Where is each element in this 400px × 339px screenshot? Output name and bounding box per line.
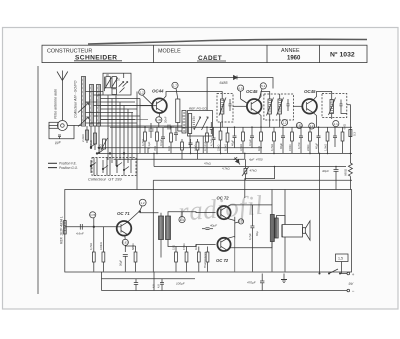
capacitor C 22nF (164, 125, 174, 130)
svg-text:A.T.C.A: A.T.C.A (203, 142, 207, 151)
tuned circuit 2 in REF box (202, 117, 209, 130)
wire: Q5 collector to output transformer (227, 205, 272, 215)
wire: B+ feed to output transformer (271, 190, 273, 205)
svg-text:REF. PO-GO: REF. PO-GO (189, 106, 207, 110)
coil column 1 (band switch wafer) (74, 125, 81, 127)
resistor row g (219, 122, 222, 153)
wire: verticals x=145,148 drop to audio box (144, 148, 146, 154)
wire: pot to audio (245, 167, 275, 199)
svg-text:OC44: OC44 (152, 89, 164, 94)
test point 1,7 (172, 82, 178, 99)
transistor Q4 OC71 (117, 221, 132, 236)
battery terminal + (340, 272, 355, 277)
bus B3 (98, 152, 352, 154)
capacitor row t (333, 127, 337, 147)
switch on + rail (319, 269, 342, 275)
svg-text:Collecteur AM - GO/PO: Collecteur AM - GO/PO (74, 80, 78, 118)
bus B1 (110, 126, 352, 128)
transistor Q6 OC72 bottom (217, 238, 230, 251)
battery terminal - (347, 288, 355, 293)
capacitor row c (189, 139, 193, 153)
resistor row u (341, 127, 344, 153)
svg-text:0,1µF: 0,1µF (159, 139, 163, 146)
svg-text:40µF: 40µF (322, 169, 329, 173)
resistor R 4,7k bias (92, 227, 95, 272)
wire: rail link vertical (101, 272, 103, 291)
wire: speaker return (284, 237, 286, 272)
capacitor row k (250, 127, 254, 148)
svg-text:2,2kΩ: 2,2kΩ (81, 134, 85, 142)
labels: Position FE / Position GO (48, 162, 78, 170)
resistor R osc feedback (176, 99, 180, 123)
test point 1,2 mf2 (282, 120, 288, 126)
diode D detection (234, 157, 240, 164)
svg-text:0,9: 0,9 (238, 86, 243, 90)
resistor row d (196, 139, 199, 159)
svg-text:1,5: 1,5 (338, 257, 343, 261)
node: base junction (93, 226, 95, 228)
capacitor C 470uF (260, 274, 264, 291)
svg-text:680Ω: 680Ω (131, 244, 135, 251)
svg-text:0,63: 0,63 (123, 240, 129, 244)
labels: ladder values (141, 139, 328, 151)
wire: MF3 to right edge (341, 111, 347, 114)
svg-text:1,7: 1,7 (173, 84, 178, 88)
wire: transformer tap down (271, 242, 273, 272)
test point 0,9 (238, 85, 248, 104)
wire: long vertical x=154 (153, 153, 155, 166)
resistor R 680 emitter (125, 246, 137, 272)
wire: MF3 lead to bus (331, 114, 333, 120)
svg-text:15Ω: 15Ω (171, 245, 175, 250)
svg-text:μμF: μμF (54, 141, 62, 145)
svg-text:4,7nF: 4,7nF (297, 142, 301, 149)
svg-text:3,9kΩ: 3,9kΩ (239, 144, 243, 151)
svg-text:40µ: 40µ (255, 231, 259, 236)
svg-text:70Ω: 70Ω (153, 146, 157, 151)
svg-text:4,5: 4,5 (152, 284, 156, 288)
bus B6 (153, 179, 352, 181)
bus B5 (154, 166, 346, 168)
svg-text:1,2: 1,2 (140, 90, 145, 94)
transformer T driver winding 1 (159, 213, 164, 258)
capacitor MF1 (229, 99, 232, 111)
arrow: tuning slug col1 a (78, 103, 89, 113)
resistor row b (170, 127, 173, 153)
wires: vertical drops to tuning area (87, 92, 140, 190)
test point 1,45 (156, 113, 162, 127)
resistor 4,7k (144, 127, 147, 148)
potentiometer volume 47k (242, 159, 249, 180)
svg-text:10kΩ: 10kΩ (193, 145, 197, 151)
svg-text:470µF: 470µF (247, 281, 256, 285)
svg-text:4,7µF: 4,7µF (248, 233, 252, 240)
svg-text:100kΩ: 100kΩ (99, 242, 103, 250)
svg-text:OC45: OC45 (246, 89, 258, 94)
resistor row m (273, 127, 276, 153)
svg-text:OC45: OC45 (304, 89, 316, 94)
resistor R osc 2,2k (86, 130, 89, 140)
capacitor row n (281, 127, 285, 153)
svg-text:1,45: 1,45 (156, 118, 162, 122)
svg-text:1,2: 1,2 (283, 121, 287, 125)
coil column 3 (band switch wafer) (97, 85, 101, 127)
capacitor C 40uF mid (202, 228, 213, 230)
svg-text:470Ω: 470Ω (182, 244, 186, 251)
transistor Q5 OC72 top (217, 206, 230, 219)
arrow: tuning slug col1 b (78, 117, 89, 127)
svg-text:40µF: 40µF (279, 142, 283, 149)
capacitor row i (233, 127, 237, 148)
resistor R 100k bias (102, 227, 105, 272)
wire: AF input (65, 226, 117, 228)
resistor row q (309, 127, 312, 153)
bus B2 (98, 147, 262, 149)
bus B4 (114, 158, 245, 160)
svg-text:MODELE: MODELE (158, 48, 181, 54)
wire: Q2 emitter drop (258, 113, 261, 128)
svg-text:N° 1032: N° 1032 (330, 50, 355, 58)
svg-text:150Ω: 150Ω (288, 145, 292, 152)
junction dots (144, 126, 351, 167)
transistor Q3 OC45 (302, 99, 317, 114)
test point 1,2 (139, 89, 152, 106)
svg-text:1,2: 1,2 (140, 201, 145, 205)
svg-text:47kΩ: 47kΩ (250, 169, 258, 173)
header table (42, 45, 367, 62)
capacitor row a (161, 127, 165, 148)
oscillator coil box (103, 73, 131, 95)
svg-text:40µF: 40µF (210, 224, 217, 228)
resistor R osc 3,2k (94, 133, 97, 144)
dashed box: MF1 (217, 94, 233, 123)
diode D agc (234, 76, 238, 80)
speaker (281, 221, 310, 240)
transformer T output secondary (275, 218, 278, 238)
bias resistor row: R 470 (185, 247, 188, 272)
test point 1,2b (309, 123, 315, 129)
svg-text:4,7kΩ: 4,7kΩ (141, 139, 145, 146)
svg-text:100µF: 100µF (176, 282, 185, 286)
antenna coupling box + capacitor C1 (49, 122, 74, 139)
wire: rail3 minus (102, 290, 348, 292)
svg-text:4,8: 4,8 (157, 284, 161, 288)
capacitor row r (317, 127, 321, 153)
resistor row s (326, 127, 329, 153)
wire: vertical x=319.5 long (319, 153, 321, 273)
test point 5,1 (259, 83, 266, 100)
wire: link 154 to rail3 (153, 272, 155, 291)
AGC loop wire (207, 78, 273, 111)
wire: osc to REF box (178, 123, 182, 132)
fuse F 1,5A (336, 254, 349, 274)
svg-text:ANNEE: ANNEE (281, 48, 300, 54)
wire: Q3 collector to MF3 (313, 92, 332, 101)
resistor row j (242, 127, 245, 153)
wire: MF2 to Q3 base (293, 105, 302, 107)
capacitor C 50uF emitter (123, 255, 128, 272)
svg-text:4,6nF: 4,6nF (76, 232, 84, 236)
audio section box (65, 190, 352, 273)
svg-text:1960: 1960 (287, 55, 301, 61)
dashed box: MF3 (322, 94, 347, 118)
svg-text:40µF: 40µF (231, 139, 235, 146)
test point 1,1 (333, 121, 339, 127)
wire: driver sec bottom to Q6 base (168, 240, 216, 247)
wire: Q1 collector to MF1 (163, 92, 222, 100)
svg-text:1kΩ: 1kΩ (167, 146, 171, 151)
capacitor C bottom 157 (160, 279, 164, 291)
svg-text:Prise antenne auto: Prise antenne auto (54, 89, 58, 119)
thermistance (206, 247, 209, 272)
svg-text:0,15: 0,15 (239, 220, 244, 223)
wire: driver sec top to Q5 base (168, 212, 216, 216)
wire: speaker top lead (284, 190, 286, 225)
transformer T output primary (270, 215, 274, 242)
svg-text:0,1µF: 0,1µF (248, 139, 252, 146)
svg-text:Collecteur GT 199: Collecteur GT 199 (88, 177, 122, 182)
test point 0,78 (90, 212, 96, 227)
wire: Q4 collector to transformer (128, 206, 159, 222)
connector: prise antenne socket (57, 121, 67, 131)
antenna (57, 71, 68, 121)
capacitor C 100uF bottom (134, 279, 138, 291)
resistor R 680 right (348, 153, 352, 189)
transformer T driver winding 2 (166, 216, 171, 240)
wire: vertical 244.8 (244, 153, 246, 159)
svg-text:22kΩ: 22kΩ (306, 145, 310, 151)
switch contacts inside GT box (90, 147, 131, 176)
header rule (wavy heavy line above table) (88, 39, 367, 44)
svg-text:4,7kΩ: 4,7kΩ (222, 167, 230, 171)
capacitor C 40uF right (334, 167, 339, 190)
bias resistor row: R 15 (175, 247, 178, 272)
wire: left boundary vertical (37, 66, 39, 294)
svg-text:0,78: 0,78 (90, 213, 96, 217)
bias resistor row: R 1k (197, 247, 200, 272)
svg-text:1kΩ: 1kΩ (257, 146, 261, 151)
svg-text:OC 72: OC 72 (217, 196, 230, 201)
capacitor row p (299, 127, 303, 153)
wires: wafer outputs to the right (86, 92, 183, 127)
wire: MF2 leads to bus (269, 120, 271, 127)
transistor Q2 OC45 (247, 99, 262, 114)
wire: Q6 collector to output transformer (227, 242, 272, 251)
wires MF2 (270, 94, 280, 120)
capacitor C base (149, 123, 154, 138)
coil column 2 (band switch wafer) (90, 85, 94, 127)
capacitor row w (174, 127, 178, 141)
tuned circuit 1 in REF box (188, 114, 200, 134)
resistor 70 (156, 127, 159, 153)
test point 0,65 (296, 123, 302, 129)
svg-text:5,1: 5,1 (261, 84, 266, 88)
svg-text:8,2kΩ: 8,2kΩ (224, 144, 228, 151)
trimmer CV1 (101, 138, 108, 150)
svg-text:Position G.O.: Position G.O. (59, 166, 78, 170)
svg-text:OC 71: OC 71 (117, 211, 130, 216)
ground (281, 274, 287, 283)
capacitor in REF box (210, 122, 213, 134)
svg-text:4,7nF: 4,7nF (210, 139, 214, 146)
resistor R on box edge (64, 221, 67, 235)
capacitor MF3 (340, 100, 343, 111)
tuned circuit 2 MF2 (277, 98, 284, 116)
svg-text:REF. 1E2F 483A L: REF. 1E2F 483A L (59, 216, 63, 244)
test point 0,15 (235, 219, 244, 224)
svg-text:680Ω: 680Ω (344, 168, 348, 176)
coil L osc (182, 111, 186, 134)
wire: secondary to speaker (277, 216, 286, 225)
box: REF PO-GO (188, 111, 213, 137)
svg-text:4µF 4700: 4µF 4700 (249, 158, 263, 162)
wire: MF1 to Q2 base (233, 105, 247, 107)
svg-text:Thermistance: Thermistance (203, 251, 207, 268)
resistor row e (206, 127, 209, 153)
component row: R/C ladder under IF strip (144, 122, 344, 159)
test point 0,63 (122, 236, 128, 253)
svg-text:6485: 6485 (220, 81, 228, 85)
svg-text:OC 72: OC 72 (216, 258, 229, 263)
capacitor C in 4,6nF (80, 224, 82, 230)
svg-text:4,7kΩ: 4,7kΩ (270, 144, 274, 151)
svg-text:1,5kΩ: 1,5kΩ (324, 144, 328, 151)
svg-text:50µF: 50µF (119, 259, 123, 266)
tuned circuit 1 MF2 (267, 98, 274, 116)
test point 1,2 audio (139, 199, 146, 206)
test point 1,4 (179, 212, 185, 223)
svg-text:1,1: 1,1 (334, 122, 339, 126)
dashed box: collecteur GT 199 switch (92, 158, 136, 176)
svg-text:1kΩ: 1kΩ (194, 245, 198, 250)
capacitor row f (212, 127, 216, 148)
svg-text:1,4: 1,4 (180, 218, 185, 222)
svg-text:40µF: 40µF (315, 142, 319, 149)
svg-text:20nF: 20nF (164, 116, 168, 123)
svg-text:9V: 9V (349, 282, 354, 286)
svg-text:−: − (352, 288, 355, 293)
wire: emitter rail (227, 217, 235, 272)
resistor row l (260, 127, 263, 153)
svg-text:22kΩ: 22kΩ (217, 145, 221, 151)
transistor Q1 OC44 (152, 98, 167, 113)
capacitor C 4,7uF feedback (250, 205, 254, 272)
resistor row h (226, 127, 229, 153)
wire: Q2 collector to MF2 (258, 92, 270, 101)
wire: Q3 emitter drop (313, 113, 316, 128)
resistor row v (181, 139, 184, 159)
capacitor MF2 (287, 99, 290, 111)
dashed box: MF2 (264, 94, 294, 120)
svg-text:47kΩ: 47kΩ (204, 162, 212, 166)
wire: right edge vertical (347, 105, 351, 153)
wire: rail2 (102, 278, 196, 280)
tuned circuit MF3 (329, 98, 336, 116)
svg-text:68Ω: 68Ω (343, 123, 347, 129)
svg-text:+: + (352, 272, 355, 277)
resistor R right 0,3 (349, 130, 352, 137)
resistor row o (291, 127, 294, 153)
svg-text:0,3: 0,3 (353, 132, 357, 136)
switch contacts above GT box (90, 144, 103, 154)
tuned circuit MF1 (219, 98, 226, 116)
svg-text:4,7kΩ: 4,7kΩ (89, 243, 93, 250)
svg-text:CONSTRUCTEUR: CONSTRUCTEUR (47, 48, 92, 54)
wires in REF box (190, 134, 203, 154)
